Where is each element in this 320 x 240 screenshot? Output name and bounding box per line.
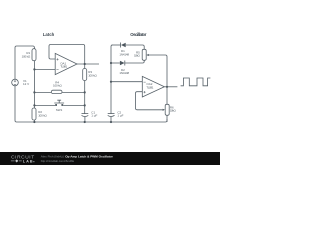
svg-text:LAB: LAB [23,159,33,164]
wire oscillator left rail [111,45,113,114]
wire OA2 + input to R6 wiper [136,92,163,110]
svg-text:1N4148: 1N4148 [119,53,129,57]
svg-text:TL081: TL081 [60,65,67,69]
wire feedback loop [49,45,85,65]
wire OA1 output [77,63,99,65]
junction C2 bottom rail [110,121,112,123]
junction C1 bottom rail [84,121,86,123]
wire D2 row [111,62,120,64]
junction OA2 output node [166,86,168,88]
resistor R4 [51,81,62,94]
capacitor C2 [108,110,124,117]
svg-text:100 kΩ: 100 kΩ [53,84,62,88]
potentiometer R6 [163,104,177,115]
diode D2 [119,61,129,76]
wire C1 bottom [84,117,86,122]
footer text [41,155,114,163]
wire D2 to R5 bottom [125,60,144,63]
svg-text:1N4148: 1N4148 [119,71,129,75]
switch SW1 [54,100,64,112]
footer bar [0,152,220,165]
wire node to R4 [34,91,51,93]
svg-text:Oscillator: Oscillator [130,32,146,37]
junction R4 left column [33,91,35,93]
wire node to switch [34,104,55,106]
wire R3 bottom to C1 [84,81,86,114]
wire top [15,46,34,49]
junction R4 right column [84,91,86,93]
junction D2 left rail [110,62,112,64]
svg-text:Alex Fish (fishk) | Op Amp Lat: Alex Fish (fishk) | Op Amp Latch & PWM O… [41,155,114,159]
svg-text:10 kΩ: 10 kΩ [134,54,141,58]
voltage source V1 [12,79,29,86]
wire R4 to column [62,91,85,93]
svg-text:12 V: 12 V [23,82,29,86]
op-amp OA2 [142,76,164,97]
junction R1/OA1 inverting input [33,68,35,70]
wire R5 wiper to output node [149,55,167,87]
svg-text:SW1: SW1 [56,108,63,112]
svg-text:100 kΩ: 100 kΩ [38,113,47,117]
wire output to R3 [84,64,86,69]
svg-text:1 µF: 1 µF [117,114,123,118]
footer logo CIRCUIT LAB [11,154,35,163]
wire output to R6 [166,87,168,105]
resistor R1 [22,49,36,61]
wire C2 bottom [110,117,112,122]
junction OA2 inverting input rail [110,81,112,83]
wire R1 node to op-amp inverting input [34,68,55,70]
wire switch to column [63,104,84,106]
capacitor C1 [82,110,98,117]
op-amp OA1 [55,53,77,74]
junction R2 bottom rail [33,121,35,123]
svg-text:100 kΩ: 100 kΩ [88,73,97,77]
resistor R2 [32,108,48,120]
diode D1 [119,43,129,57]
svg-text:http://circuitlab.com/c6m48e: http://circuitlab.com/c6m48e [41,159,75,163]
svg-text:Latch: Latch [43,32,55,37]
junction SW1 left column [33,104,35,106]
junction SW1 right column [84,104,86,106]
wire D1 row [112,44,121,46]
waveform annotation [181,78,211,86]
wire R6 bottom [166,115,168,122]
wire left rail bottom + bottom rail [15,86,167,122]
svg-text:TL081: TL081 [146,85,153,89]
wire to OA2 inverting input [111,81,142,83]
wire left rail top [14,48,16,80]
wire R2 bottom [33,120,35,122]
wire D1 to R5 [126,45,145,49]
svg-text:1 µF: 1 µF [91,114,97,118]
resistor R3 [83,69,98,81]
svg-text:10 kΩ: 10 kΩ [170,108,177,112]
wire R1 to R2 column [33,61,35,108]
wire OA2 output [164,86,177,88]
junction OA1 output node [84,63,86,65]
potentiometer R5 [134,49,149,60]
svg-text:100 kΩ: 100 kΩ [22,54,31,58]
